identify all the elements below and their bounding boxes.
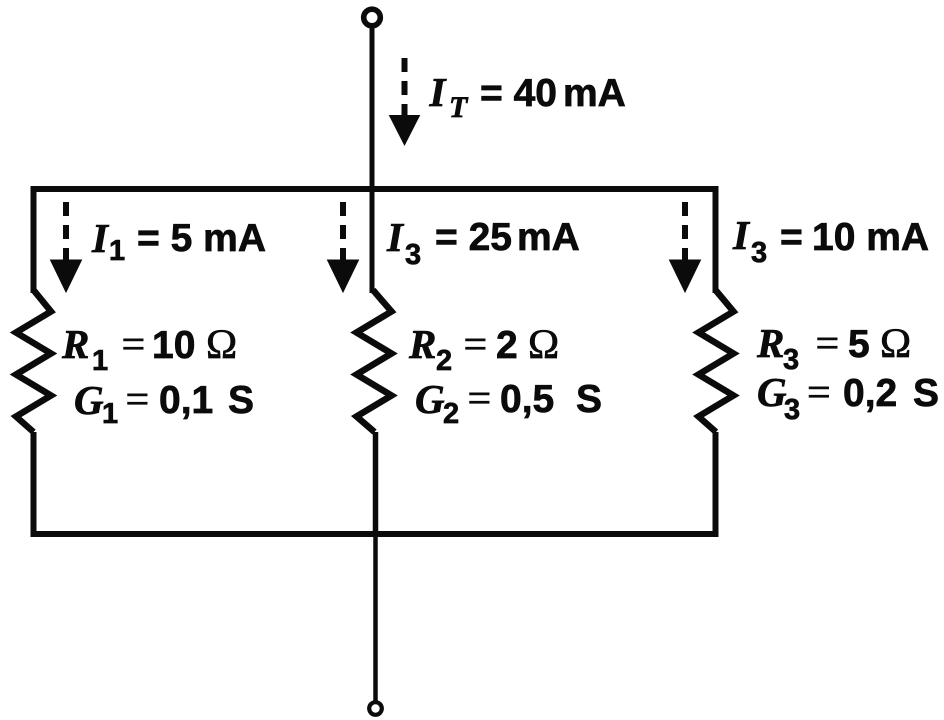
wire: right branch lower segment [713, 432, 719, 537]
wire: left branch lower segment [31, 432, 37, 537]
wire: middle branch lower segment [373, 432, 379, 534]
current arrow I3 (right branch) [670, 202, 701, 292]
wire: bottom bus [31, 531, 719, 537]
wire: top bus [31, 186, 719, 192]
terminal: bottom output terminal [369, 702, 382, 715]
wire: left branch upper segment [31, 186, 37, 293]
resistor R1 [16, 290, 51, 432]
wire: bottom feed from bottom bus to output terminal [373, 534, 378, 701]
wire: top feed from input terminal down to top bus [370, 26, 375, 192]
resistor R2 [357, 290, 392, 432]
terminal: top input terminal [364, 9, 381, 26]
current arrow I2 (middle branch) [328, 202, 359, 292]
resistor R3 [699, 290, 734, 432]
wire: middle branch upper segment [370, 189, 375, 293]
wire: right branch upper segment [713, 186, 719, 293]
current arrow IT [389, 58, 421, 146]
current arrow I1 [51, 202, 82, 292]
